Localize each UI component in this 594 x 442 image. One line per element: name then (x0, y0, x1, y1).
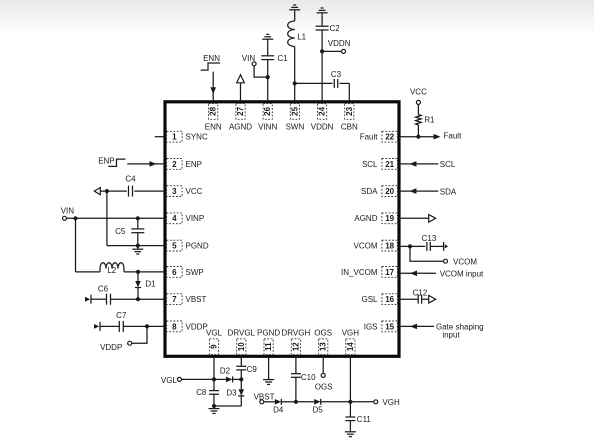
svg-text:C10: C10 (301, 373, 316, 382)
svg-text:1: 1 (172, 133, 177, 142)
svg-text:VCOM: VCOM (354, 242, 378, 251)
svg-text:3: 3 (172, 187, 177, 196)
svg-text:VINN: VINN (258, 123, 277, 132)
svg-text:VGH: VGH (342, 329, 360, 338)
svg-text:VDDN: VDDN (328, 39, 351, 48)
svg-text:C7: C7 (116, 311, 127, 320)
svg-text:15: 15 (385, 322, 394, 331)
svg-text:9: 9 (210, 344, 219, 349)
svg-text:26: 26 (263, 106, 272, 115)
svg-text:VDDP: VDDP (100, 343, 122, 352)
svg-text:OGS: OGS (314, 329, 332, 338)
svg-text:L2: L2 (107, 266, 116, 275)
svg-text:20: 20 (385, 187, 394, 196)
svg-text:22: 22 (385, 133, 394, 142)
svg-text:VGL: VGL (206, 329, 223, 338)
svg-text:VCC: VCC (410, 88, 427, 97)
svg-text:AGND: AGND (229, 123, 252, 132)
svg-text:17: 17 (385, 268, 394, 277)
svg-text:VGH: VGH (382, 398, 400, 407)
svg-text:28: 28 (209, 106, 218, 115)
svg-text:D2: D2 (220, 367, 231, 376)
svg-text:VCOM input: VCOM input (440, 270, 484, 279)
svg-text:AGND: AGND (354, 214, 377, 223)
svg-text:23: 23 (345, 106, 354, 115)
svg-text:SDA: SDA (440, 187, 457, 196)
svg-text:L1: L1 (297, 33, 306, 42)
svg-text:8: 8 (172, 322, 177, 331)
svg-text:R1: R1 (424, 116, 435, 125)
svg-text:CBN: CBN (341, 123, 358, 132)
svg-text:2: 2 (172, 160, 177, 169)
svg-text:SCL: SCL (440, 160, 456, 169)
svg-text:VIN: VIN (61, 207, 75, 216)
svg-text:19: 19 (385, 214, 394, 223)
svg-text:ENN: ENN (203, 54, 220, 63)
svg-text:D4: D4 (273, 406, 284, 415)
svg-text:ENN: ENN (205, 123, 222, 132)
svg-text:PGND: PGND (257, 329, 280, 338)
svg-text:VGL: VGL (161, 376, 178, 385)
svg-text:DRVGH: DRVGH (282, 329, 311, 338)
svg-text:Fault: Fault (360, 133, 379, 142)
svg-text:OGS: OGS (315, 383, 333, 392)
svg-text:C4: C4 (125, 174, 136, 183)
svg-text:11: 11 (264, 342, 273, 351)
svg-text:C11: C11 (357, 415, 372, 424)
svg-text:SWP: SWP (186, 268, 204, 277)
svg-text:C13: C13 (422, 234, 437, 243)
svg-text:ENP: ENP (98, 156, 114, 165)
svg-text:ENP: ENP (186, 160, 202, 169)
svg-text:12: 12 (291, 342, 300, 351)
svg-text:VDDP: VDDP (186, 322, 208, 331)
svg-text:VBST: VBST (254, 392, 275, 401)
svg-text:D5: D5 (312, 406, 323, 415)
svg-text:IGS: IGS (364, 322, 378, 331)
svg-text:VINP: VINP (186, 214, 205, 223)
svg-text:10: 10 (237, 342, 246, 351)
svg-text:16: 16 (385, 295, 394, 304)
svg-text:SCL: SCL (362, 160, 378, 169)
svg-text:25: 25 (290, 106, 299, 115)
svg-text:VDDN: VDDN (311, 123, 334, 132)
svg-text:DRVGL: DRVGL (228, 329, 256, 338)
svg-text:13: 13 (319, 342, 328, 351)
svg-text:VCOM: VCOM (453, 258, 477, 267)
svg-text:4: 4 (172, 214, 177, 223)
svg-text:VCC: VCC (186, 187, 203, 196)
svg-text:C8: C8 (196, 388, 207, 397)
svg-text:D1: D1 (145, 280, 156, 289)
svg-text:VBST: VBST (186, 295, 207, 304)
svg-text:5: 5 (172, 242, 177, 251)
svg-text:24: 24 (318, 106, 327, 115)
svg-text:SDA: SDA (361, 187, 378, 196)
svg-text:SYNC: SYNC (186, 133, 208, 142)
svg-text:C12: C12 (413, 288, 428, 297)
svg-text:18: 18 (385, 242, 394, 251)
svg-text:21: 21 (385, 160, 394, 169)
svg-text:C1: C1 (278, 54, 289, 63)
svg-text:C9: C9 (247, 365, 258, 374)
svg-text:C3: C3 (331, 70, 342, 79)
svg-text:D3: D3 (226, 389, 237, 398)
svg-text:Fault: Fault (444, 132, 463, 141)
svg-text:C6: C6 (98, 284, 109, 293)
svg-text:7: 7 (172, 295, 177, 304)
svg-text:6: 6 (172, 268, 177, 277)
svg-text:PGND: PGND (186, 242, 209, 251)
svg-text:C2: C2 (330, 24, 341, 33)
svg-text:SWN: SWN (286, 123, 305, 132)
svg-text:C5: C5 (115, 227, 126, 236)
svg-text:IN_VCOM: IN_VCOM (341, 268, 378, 277)
svg-text:GSL: GSL (361, 295, 378, 304)
svg-text:input: input (442, 330, 460, 339)
svg-text:14: 14 (346, 342, 355, 351)
svg-text:27: 27 (236, 106, 245, 115)
